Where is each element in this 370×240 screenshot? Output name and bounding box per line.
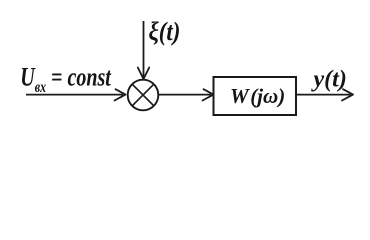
arrowhead output [342,89,353,100]
svg-text:W(jω): W(jω) [230,84,285,108]
arrowhead into block [203,89,214,100]
svg-text:Uвх = const: Uвх = const [20,63,112,95]
arrowhead disturbance [138,68,149,80]
arrowhead input [115,89,126,100]
wire output [297,94,351,96]
svg-text:y(t): y(t) [311,67,347,93]
wire vertical disturbance [143,21,145,78]
node summing junction [128,80,159,111]
block W(jω) [214,77,297,115]
wire junction to block [159,94,212,96]
wire input horizontal [26,94,123,96]
cross X in summing junction [132,84,154,106]
svg-text:ξ(t): ξ(t) [149,18,181,47]
